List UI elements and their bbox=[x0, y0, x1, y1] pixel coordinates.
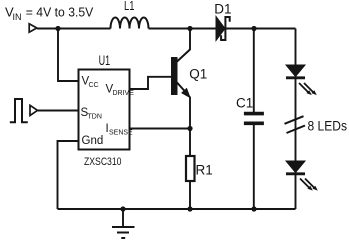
wire R1 to bottom rail bbox=[189, 181, 191, 209]
LED bottom bbox=[286, 161, 305, 174]
wire shutdown pin bbox=[38, 110, 78, 112]
wire top rail mid bbox=[149, 28, 217, 30]
node sense junction bbox=[187, 126, 192, 131]
pin label VDRIVE bbox=[106, 84, 135, 98]
svg-text:D1: D1 bbox=[214, 2, 231, 17]
transistor Q1 bbox=[171, 50, 190, 98]
resistor R1 bbox=[186, 156, 195, 181]
svg-text:8 LEDs: 8 LEDs bbox=[308, 118, 348, 134]
IC U1 box bbox=[79, 70, 130, 150]
node collector junction bbox=[187, 26, 192, 31]
break symbol (string continuation) bbox=[285, 116, 306, 133]
pin label Vcc bbox=[82, 76, 99, 90]
node R1 bottom junction bbox=[187, 206, 192, 211]
wire emitter down bbox=[189, 97, 191, 129]
label VIN = 4V to 3.5V bbox=[5, 5, 94, 23]
svg-text:L1: L1 bbox=[124, 0, 135, 13]
wire VCC feed bbox=[58, 29, 78, 82]
LED top bbox=[286, 65, 305, 78]
pulse input symbol bbox=[10, 99, 28, 122]
capacitor C1 bbox=[244, 114, 264, 124]
inductor L1 bbox=[111, 18, 149, 29]
node C1 top junction bbox=[251, 26, 256, 31]
node input junction bbox=[55, 26, 60, 31]
svg-text:Gnd: Gnd bbox=[82, 135, 104, 147]
wire LED string bbox=[295, 29, 297, 210]
pin label STDN bbox=[81, 107, 102, 121]
ground bbox=[112, 209, 135, 238]
wire C1 bottom lead bbox=[253, 125, 255, 210]
wire top rail left bbox=[37, 28, 111, 30]
diode D1 bbox=[216, 17, 230, 41]
wire gnd pin to rail bbox=[58, 141, 79, 209]
svg-text:DRIVE: DRIVE bbox=[113, 90, 135, 97]
svg-text:= 4V to 3.5V: = 4V to 3.5V bbox=[26, 5, 94, 20]
svg-text:SENSE: SENSE bbox=[109, 130, 133, 137]
wire top rail right bbox=[226, 28, 296, 30]
node C1 bottom junction bbox=[251, 206, 256, 211]
pin label ISENSE bbox=[106, 123, 134, 137]
wire collector up bbox=[189, 29, 191, 51]
wire sense to R1 bbox=[189, 129, 191, 157]
LED top emission arrows bbox=[299, 83, 317, 95]
wire isense pin bbox=[130, 128, 191, 130]
svg-text:Q1: Q1 bbox=[189, 66, 207, 81]
svg-text:CC: CC bbox=[89, 82, 99, 89]
svg-text:C1: C1 bbox=[236, 96, 253, 111]
wire bottom rail bbox=[58, 208, 296, 210]
svg-text:R1: R1 bbox=[196, 163, 213, 178]
svg-text:U1: U1 bbox=[99, 53, 111, 68]
wire vdrive to base bbox=[130, 77, 172, 89]
svg-text:ZXSC310: ZXSC310 bbox=[84, 156, 122, 168]
input buffer triangle bbox=[30, 105, 38, 115]
input terminal arrow bbox=[29, 24, 37, 32]
svg-text:IN: IN bbox=[13, 12, 22, 22]
svg-text:TDN: TDN bbox=[88, 114, 102, 121]
node ground junction bbox=[120, 206, 125, 211]
wire C1 top lead bbox=[253, 29, 255, 113]
LED bottom emission arrows bbox=[300, 179, 318, 191]
